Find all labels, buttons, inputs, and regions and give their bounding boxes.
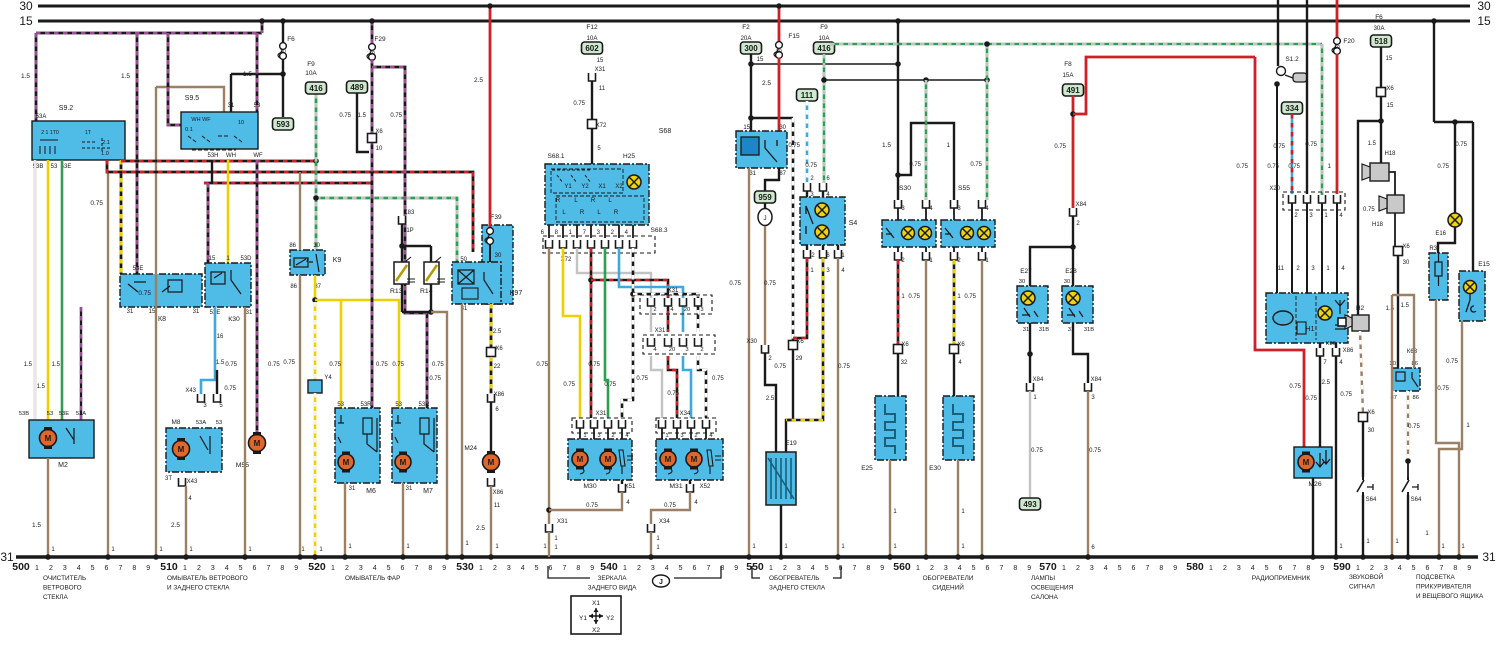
svg-text:F20: F20 [1343, 38, 1355, 45]
svg-text:15A: 15A [1062, 72, 1074, 79]
svg-text:1: 1 [769, 565, 773, 572]
svg-text:0.75: 0.75 [964, 294, 976, 300]
svg-text:М6: М6 [366, 488, 376, 495]
svg-text:6: 6 [693, 565, 697, 572]
svg-text:593: 593 [276, 120, 290, 129]
svg-text:2: 2 [611, 433, 614, 439]
svg-text:0.75: 0.75 [712, 376, 724, 382]
svg-text:ВЕТРОВОГО: ВЕТРОВОГО [43, 585, 82, 592]
svg-text:3T: 3T [165, 476, 172, 482]
svg-text:ЕЗ0: ЕЗ0 [929, 465, 941, 472]
svg-text:3: 3 [359, 565, 363, 572]
svg-text:2.5: 2.5 [476, 525, 485, 532]
svg-text:1: 1 [1209, 565, 1213, 572]
svg-text:М30: М30 [583, 483, 596, 490]
svg-text:30A: 30A [1373, 25, 1385, 32]
svg-text:9: 9 [1173, 565, 1177, 572]
svg-text:53: 53 [47, 411, 53, 417]
svg-text:3: 3 [1090, 565, 1094, 572]
svg-text:S68.1: S68.1 [548, 153, 565, 160]
svg-text:10: 10 [369, 51, 375, 57]
svg-text:X86: X86 [1343, 348, 1354, 354]
svg-text:5: 5 [239, 565, 243, 572]
svg-text:M: M [343, 458, 350, 467]
svg-text:0.75: 0.75 [1289, 384, 1301, 390]
svg-text:5: 5 [1265, 565, 1269, 572]
svg-text:F6: F6 [287, 36, 295, 43]
svg-text:334: 334 [1285, 104, 1299, 113]
svg-text:0.75: 0.75 [788, 143, 800, 149]
svg-text:S64: S64 [1411, 497, 1422, 503]
svg-text:0.75: 0.75 [283, 360, 295, 366]
svg-text:15: 15 [1386, 56, 1393, 62]
svg-text:8: 8 [1159, 565, 1163, 572]
svg-text:X6: X6 [1402, 244, 1410, 250]
svg-text:М24: М24 [464, 445, 477, 452]
svg-text:9: 9 [442, 565, 446, 572]
svg-text:8: 8 [866, 565, 870, 572]
svg-text:ЗЕРКАЛА: ЗЕРКАЛА [598, 575, 628, 582]
svg-text:10: 10 [1334, 45, 1340, 51]
svg-text:20: 20 [669, 347, 675, 353]
svg-text:53H: 53H [207, 153, 218, 159]
svg-text:7: 7 [562, 565, 566, 572]
svg-text:0.1: 0.1 [185, 127, 193, 133]
svg-text:X84: X84 [1076, 202, 1087, 208]
svg-text:0.75: 0.75 [563, 382, 575, 388]
svg-text:518: 518 [1374, 37, 1388, 46]
svg-text:0.75: 0.75 [1437, 164, 1449, 170]
svg-text:9: 9 [294, 565, 298, 572]
svg-text:8: 8 [280, 565, 284, 572]
svg-text:3: 3 [63, 565, 67, 572]
svg-text:2.1: 2.1 [102, 140, 110, 146]
svg-text:8: 8 [1453, 565, 1457, 572]
svg-text:F2: F2 [742, 24, 750, 31]
svg-text:1: 1 [1356, 565, 1360, 572]
svg-text:1.5: 1.5 [358, 113, 367, 119]
svg-text:2.5: 2.5 [474, 77, 483, 84]
svg-text:510: 510 [160, 561, 178, 573]
svg-text:X31: X31 [655, 328, 666, 334]
svg-text:9: 9 [734, 565, 738, 572]
svg-text:31В: 31В [1039, 327, 1049, 333]
svg-text:Y1: Y1 [564, 184, 572, 190]
svg-text:Х6: Х6 [796, 339, 804, 345]
svg-text:СТЕКЛА: СТЕКЛА [43, 594, 68, 601]
svg-text:2: 2 [653, 307, 656, 313]
svg-text:X6: X6 [901, 342, 909, 348]
svg-text:0.75: 0.75 [392, 362, 404, 368]
svg-text:5: 5 [1412, 565, 1416, 572]
svg-text:Y2: Y2 [606, 615, 614, 622]
svg-text:X1: X1 [598, 184, 606, 190]
svg-text:30: 30 [313, 243, 320, 249]
svg-text:0.75: 0.75 [1089, 448, 1101, 454]
svg-text:2: 2 [783, 565, 787, 572]
svg-text:1: 1 [479, 565, 483, 572]
svg-text:S64: S64 [1366, 497, 1377, 503]
svg-text:0.75: 0.75 [573, 101, 585, 107]
svg-text:X84: X84 [1033, 377, 1044, 383]
svg-text:2.5: 2.5 [493, 329, 502, 335]
svg-text:15: 15 [1477, 14, 1491, 28]
svg-text:4: 4 [521, 565, 525, 572]
svg-text:X31: X31 [557, 519, 568, 525]
svg-text:5: 5 [91, 565, 95, 572]
svg-text:H18: H18 [1372, 222, 1384, 228]
svg-text:1.5: 1.5 [52, 362, 61, 368]
svg-text:S4: S4 [849, 220, 858, 227]
svg-text:2: 2 [930, 565, 934, 572]
svg-text:S9.2: S9.2 [59, 105, 74, 112]
svg-text:416: 416 [817, 44, 831, 53]
svg-text:3: 3 [1237, 565, 1241, 572]
svg-text:560: 560 [893, 561, 911, 573]
svg-text:4: 4 [1398, 565, 1402, 572]
svg-text:53R: 53R [360, 402, 372, 408]
svg-text:ОМЫВАТЕЛЬ ВЕТРОВОГО: ОМЫВАТЕЛЬ ВЕТРОВОГО [167, 575, 248, 582]
svg-text:6: 6 [1279, 565, 1283, 572]
svg-text:53A: 53A [36, 114, 47, 120]
svg-text:R: R [591, 198, 596, 204]
svg-text:570: 570 [1039, 561, 1057, 573]
svg-text:Е16: Е16 [1435, 231, 1446, 237]
svg-text:53Е: 53Е [59, 411, 69, 417]
svg-text:ПРИКУРИВАТЕЛЯ: ПРИКУРИВАТЕЛЯ [1416, 584, 1471, 591]
svg-text:0.75: 0.75 [536, 362, 548, 368]
svg-text:29: 29 [796, 356, 803, 362]
svg-text:8: 8 [1306, 565, 1310, 572]
svg-text:J: J [763, 215, 766, 222]
svg-text:491: 491 [1066, 86, 1080, 95]
svg-text:F29: F29 [374, 36, 386, 43]
svg-text:8: 8 [1013, 565, 1017, 572]
svg-text:53: 53 [216, 420, 222, 426]
svg-text:30: 30 [1477, 0, 1491, 13]
svg-text:959: 959 [758, 193, 772, 202]
svg-text:Х6: Х6 [1367, 410, 1375, 416]
svg-text:111: 111 [801, 91, 814, 100]
svg-text:0.75: 0.75 [664, 503, 676, 509]
svg-text:Е25: Е25 [861, 465, 873, 472]
svg-text:M: M [1303, 458, 1310, 467]
svg-text:X1: X1 [592, 600, 600, 607]
svg-text:0.75: 0.75 [970, 162, 982, 168]
svg-text:1.5: 1.5 [32, 522, 41, 529]
svg-text:М55: М55 [236, 462, 249, 469]
svg-text:3: 3 [797, 565, 801, 572]
svg-text:0.75: 0.75 [429, 376, 441, 382]
svg-text:X51: X51 [625, 484, 636, 490]
svg-text:И ЗАДНЕГО СТЕКЛА: И ЗАДНЕГО СТЕКЛА [167, 585, 230, 592]
svg-text:20: 20 [684, 307, 690, 313]
svg-text:S9.5: S9.5 [185, 95, 200, 102]
svg-text:8: 8 [132, 565, 136, 572]
svg-text:5: 5 [535, 565, 539, 572]
svg-text:X34: X34 [659, 519, 670, 525]
svg-text:Х6: Х6 [375, 129, 383, 135]
svg-text:К63: К63 [1407, 349, 1418, 355]
svg-text:530: 530 [456, 561, 474, 573]
svg-text:5: 5 [1118, 565, 1122, 572]
svg-text:X43: X43 [185, 388, 196, 394]
svg-text:7: 7 [852, 565, 856, 572]
svg-text:F9: F9 [307, 61, 315, 68]
svg-text:1.5: 1.5 [37, 384, 46, 390]
svg-text:2: 2 [1223, 565, 1227, 572]
svg-text:S68: S68 [659, 128, 672, 135]
svg-text:M: M [605, 455, 612, 464]
svg-text:4: 4 [373, 565, 377, 572]
svg-text:8: 8 [576, 565, 580, 572]
svg-text:30: 30 [776, 49, 782, 55]
svg-text:6: 6 [105, 565, 109, 572]
svg-text:ЗАДНЕГО ВИДА: ЗАДНЕГО ВИДА [588, 585, 638, 592]
svg-text:30: 30 [1368, 428, 1375, 434]
svg-text:ОМЫВАТЕЛЬ ФАР: ОМЫВАТЕЛЬ ФАР [345, 575, 400, 582]
svg-text:32: 32 [901, 360, 908, 366]
svg-text:E15: E15 [1478, 261, 1490, 268]
svg-text:F8: F8 [1064, 61, 1072, 68]
svg-text:3: 3 [597, 433, 600, 439]
svg-text:11: 11 [599, 86, 606, 92]
svg-text:31: 31 [1023, 327, 1029, 333]
svg-text:M: M [254, 439, 261, 448]
svg-text:31: 31 [749, 171, 756, 177]
svg-text:5: 5 [972, 565, 976, 572]
svg-text:X31: X31 [595, 67, 606, 73]
svg-text:31: 31 [349, 486, 356, 492]
svg-text:X30: X30 [746, 339, 757, 345]
svg-text:M: M [488, 458, 495, 467]
svg-text:7: 7 [706, 565, 710, 572]
svg-text:30: 30 [779, 125, 786, 131]
svg-text:H25: H25 [623, 153, 635, 160]
svg-text:J: J [659, 579, 663, 586]
svg-text:R13: R13 [390, 288, 403, 295]
svg-text:0.75: 0.75 [908, 294, 920, 300]
svg-text:0.75: 0.75 [1236, 164, 1248, 170]
svg-text:1.5: 1.5 [1386, 306, 1395, 312]
svg-text:СИГНАЛ: СИГНАЛ [1349, 584, 1375, 591]
svg-text:86: 86 [290, 284, 297, 290]
svg-text:540: 540 [600, 561, 618, 573]
svg-text:S68.3: S68.3 [651, 227, 668, 234]
svg-text:0.75: 0.75 [1031, 448, 1043, 454]
svg-text:31: 31 [193, 309, 200, 315]
svg-text:X43: X43 [187, 479, 198, 485]
svg-text:602: 602 [585, 44, 599, 53]
svg-text:550: 550 [746, 561, 764, 573]
svg-text:K97: K97 [510, 290, 523, 297]
svg-text:0.75: 0.75 [667, 391, 679, 397]
svg-text:7: 7 [1439, 565, 1443, 572]
svg-text:2.5: 2.5 [766, 396, 775, 402]
svg-text:ЛАМПЫ: ЛАМПЫ [1031, 575, 1055, 582]
svg-text:86: 86 [1413, 395, 1419, 401]
svg-text:10: 10 [238, 120, 244, 126]
svg-text:416: 416 [309, 84, 323, 93]
svg-text:1: 1 [665, 433, 668, 439]
svg-text:F6: F6 [1375, 14, 1383, 21]
svg-text:7: 7 [266, 565, 270, 572]
svg-text:3: 3 [651, 565, 655, 572]
svg-text:ОБОГРЕВАТЕЛЬ: ОБОГРЕВАТЕЛЬ [769, 575, 819, 582]
svg-text:30: 30 [1064, 279, 1070, 285]
svg-text:М31: М31 [669, 483, 682, 490]
svg-text:S55: S55 [958, 185, 970, 192]
svg-text:31: 31 [1482, 550, 1496, 564]
svg-text:0.75: 0.75 [1437, 386, 1449, 392]
svg-text:ЗАДНЕГО СТЕКЛА: ЗАДНЕГО СТЕКЛА [769, 585, 826, 592]
svg-text:1: 1 [916, 565, 920, 572]
svg-text:WH: WH [226, 153, 236, 159]
svg-text:2.5: 2.5 [1322, 380, 1331, 386]
svg-text:К8: К8 [158, 316, 166, 323]
svg-text:6: 6 [1426, 565, 1430, 572]
svg-text:15: 15 [597, 58, 604, 64]
svg-text:0.75: 0.75 [586, 503, 598, 509]
svg-text:15: 15 [757, 57, 764, 63]
svg-text:4: 4 [665, 565, 669, 572]
svg-text:1T: 1T [85, 130, 92, 136]
svg-text:ЗВУКОВОЙ: ЗВУКОВОЙ [1349, 572, 1384, 581]
svg-text:R: R [556, 198, 561, 204]
svg-text:31: 31 [246, 310, 253, 316]
svg-text:2: 2 [637, 565, 641, 572]
svg-text:11: 11 [494, 503, 501, 509]
svg-text:30: 30 [19, 0, 33, 13]
svg-text:30: 30 [1403, 260, 1410, 266]
svg-text:7: 7 [1292, 565, 1296, 572]
svg-text:R: R [580, 210, 585, 216]
svg-text:S1.2: S1.2 [1285, 56, 1299, 63]
svg-text:0.75: 0.75 [138, 290, 151, 297]
svg-text:0.75: 0.75 [729, 281, 741, 287]
svg-text:M2: M2 [58, 462, 68, 469]
svg-text:0.75: 0.75 [1408, 424, 1420, 430]
svg-text:И ВЕЩЕВОГО ЯЩИКА: И ВЕЩЕВОГО ЯЩИКА [1416, 593, 1484, 600]
svg-text:1.5: 1.5 [24, 362, 33, 368]
svg-text:31: 31 [127, 309, 134, 315]
svg-text:5: 5 [679, 565, 683, 572]
svg-text:Е19: Е19 [785, 440, 797, 447]
svg-text:15: 15 [1387, 103, 1394, 109]
svg-text:F12: F12 [586, 24, 598, 31]
svg-text:F15: F15 [788, 33, 800, 40]
svg-text:M: M [665, 455, 672, 464]
svg-text:1.5: 1.5 [121, 73, 130, 80]
svg-text:590: 590 [1333, 561, 1351, 573]
svg-text:53R: 53R [418, 402, 430, 408]
svg-text:4: 4 [958, 565, 962, 572]
svg-text:9: 9 [1467, 565, 1471, 572]
svg-text:6: 6 [549, 565, 553, 572]
svg-text:5: 5 [825, 565, 829, 572]
svg-text:10A: 10A [818, 35, 830, 42]
svg-text:S30: S30 [899, 185, 911, 192]
svg-text:X86: X86 [494, 392, 505, 398]
svg-text:K9: K9 [333, 257, 342, 264]
svg-text:0.75: 0.75 [1273, 144, 1285, 150]
svg-text:300: 300 [744, 44, 758, 53]
svg-text:0.75: 0.75 [1305, 396, 1317, 402]
svg-text:2: 2 [345, 565, 349, 572]
svg-text:1: 1 [35, 565, 39, 572]
svg-text:1: 1 [623, 565, 627, 572]
svg-text:ОБОГРЕВАТЕЛИ: ОБОГРЕВАТЕЛИ [923, 575, 974, 582]
svg-text:500: 500 [12, 561, 30, 573]
svg-text:0.75: 0.75 [1455, 142, 1467, 148]
svg-text:53: 53 [51, 164, 58, 170]
svg-text:22: 22 [494, 364, 501, 370]
svg-text:9: 9 [1320, 565, 1324, 572]
svg-text:X6: X6 [495, 346, 503, 352]
svg-text:Y2: Y2 [581, 184, 589, 190]
svg-text:493: 493 [1023, 500, 1037, 509]
svg-text:X31: X31 [668, 288, 679, 294]
svg-text:H1: H1 [1306, 326, 1315, 333]
svg-text:0.75: 0.75 [1054, 144, 1066, 150]
svg-text:11: 11 [1278, 266, 1285, 272]
svg-text:9: 9 [880, 565, 884, 572]
svg-text:7: 7 [1145, 565, 1149, 572]
svg-text:САЛОНА: САЛОНА [1031, 594, 1059, 601]
svg-text:87: 87 [779, 171, 786, 177]
svg-text:M: M [178, 445, 185, 454]
svg-text:6: 6 [986, 565, 990, 572]
svg-text:53Е: 53Е [133, 266, 144, 272]
svg-text:10A: 10A [305, 70, 317, 77]
svg-text:X34: X34 [680, 411, 691, 417]
svg-text:0.75: 0.75 [90, 200, 103, 207]
svg-text:X84: X84 [1091, 377, 1102, 383]
svg-text:Y1: Y1 [579, 615, 587, 622]
svg-text:1: 1 [183, 565, 187, 572]
svg-text:R: R [614, 210, 619, 216]
svg-text:М7: М7 [423, 488, 433, 495]
svg-text:2: 2 [197, 565, 201, 572]
svg-text:F39: F39 [490, 214, 502, 221]
svg-text:0.75: 0.75 [1340, 392, 1352, 398]
svg-text:15: 15 [209, 256, 216, 262]
svg-text:1.5: 1.5 [1368, 141, 1377, 147]
svg-text:15: 15 [743, 125, 750, 131]
svg-text:7: 7 [414, 565, 418, 572]
svg-text:0.75: 0.75 [588, 362, 600, 368]
svg-text:X72: X72 [596, 123, 607, 129]
svg-text:2: 2 [694, 433, 697, 439]
svg-text:0.75: 0.75 [604, 382, 616, 388]
svg-text:30: 30 [1019, 279, 1025, 285]
svg-text:4: 4 [1104, 565, 1108, 572]
svg-text:0.75: 0.75 [1288, 164, 1300, 170]
svg-text:Х6: Х6 [957, 342, 965, 348]
svg-text:0.75: 0.75 [909, 162, 921, 168]
svg-text:0.75: 0.75 [838, 364, 850, 370]
svg-text:3: 3 [507, 565, 511, 572]
svg-text:F9: F9 [820, 24, 828, 31]
svg-text:0.75: 0.75 [339, 113, 351, 119]
svg-text:6: 6 [253, 565, 257, 572]
svg-text:53A: 53A [196, 420, 206, 426]
svg-text:0.75: 0.75 [805, 163, 817, 169]
svg-text:3: 3 [700, 307, 703, 313]
svg-text:H18: H18 [1384, 151, 1396, 157]
svg-text:E28: E28 [1065, 268, 1077, 275]
svg-text:9: 9 [146, 565, 150, 572]
